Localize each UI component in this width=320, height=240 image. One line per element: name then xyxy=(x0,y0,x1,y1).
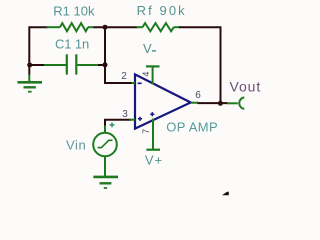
op-amp U1 triangle xyxy=(135,74,191,128)
capacitor C1 xyxy=(42,54,100,74)
pin 3 stub xyxy=(130,119,136,121)
wire to terminal xyxy=(227,102,238,104)
svg-text:Rf 90k: Rf 90k xyxy=(137,3,187,18)
ground source xyxy=(93,177,118,188)
op-amp plus sign middle xyxy=(150,112,154,116)
wire cap right stub xyxy=(98,64,105,66)
node junction cap left xyxy=(27,63,32,68)
svg-text:2: 2 xyxy=(121,71,127,82)
pin 6 stub xyxy=(191,102,199,104)
svg-text:R1 10k: R1 10k xyxy=(53,4,95,19)
svg-text:6: 6 xyxy=(195,90,201,101)
node output junction xyxy=(218,101,223,106)
svg-text:C1 1n: C1 1n xyxy=(55,36,89,51)
svg-text:Vout: Vout xyxy=(230,78,262,94)
svg-text:OP AMP: OP AMP xyxy=(166,119,218,134)
op-amp minus sign xyxy=(138,82,142,84)
source plus marker xyxy=(110,123,115,128)
svg-text:V+: V+ xyxy=(145,153,163,168)
wire source top stub xyxy=(104,126,106,134)
terminal Vout open pin xyxy=(239,97,244,109)
wire ground stub dark xyxy=(28,65,30,75)
ground left xyxy=(18,75,43,92)
op-amp V- pin bar xyxy=(146,66,160,84)
svg-text:V: V xyxy=(143,41,152,56)
resistor Rf xyxy=(137,23,181,31)
wire top right + right vertical xyxy=(179,27,221,103)
source sigmoid symbol xyxy=(98,140,113,147)
wire feedback vertical xyxy=(105,27,133,83)
pin 2 stub xyxy=(132,82,136,84)
node junction cap right xyxy=(103,62,108,67)
node junction top xyxy=(103,25,108,30)
wire left vertical + top-left corner xyxy=(29,27,48,65)
op-amp plus sign input xyxy=(138,117,142,121)
wire source bottom stub xyxy=(104,156,106,176)
equation fragment digit 1 xyxy=(222,192,229,196)
wire cap left stub xyxy=(29,64,44,66)
svg-text:3: 3 xyxy=(122,109,128,120)
resistor R1 xyxy=(47,23,95,31)
pin 3 wire xyxy=(105,120,131,126)
op-amp V+ pin bar xyxy=(146,119,160,150)
svg-text:Vin: Vin xyxy=(66,138,86,153)
wire output xyxy=(198,102,229,104)
wire top middle xyxy=(94,26,138,28)
source Vin circle xyxy=(93,133,117,157)
svg-text:4: 4 xyxy=(141,72,151,77)
svg-text:7: 7 xyxy=(141,129,151,134)
